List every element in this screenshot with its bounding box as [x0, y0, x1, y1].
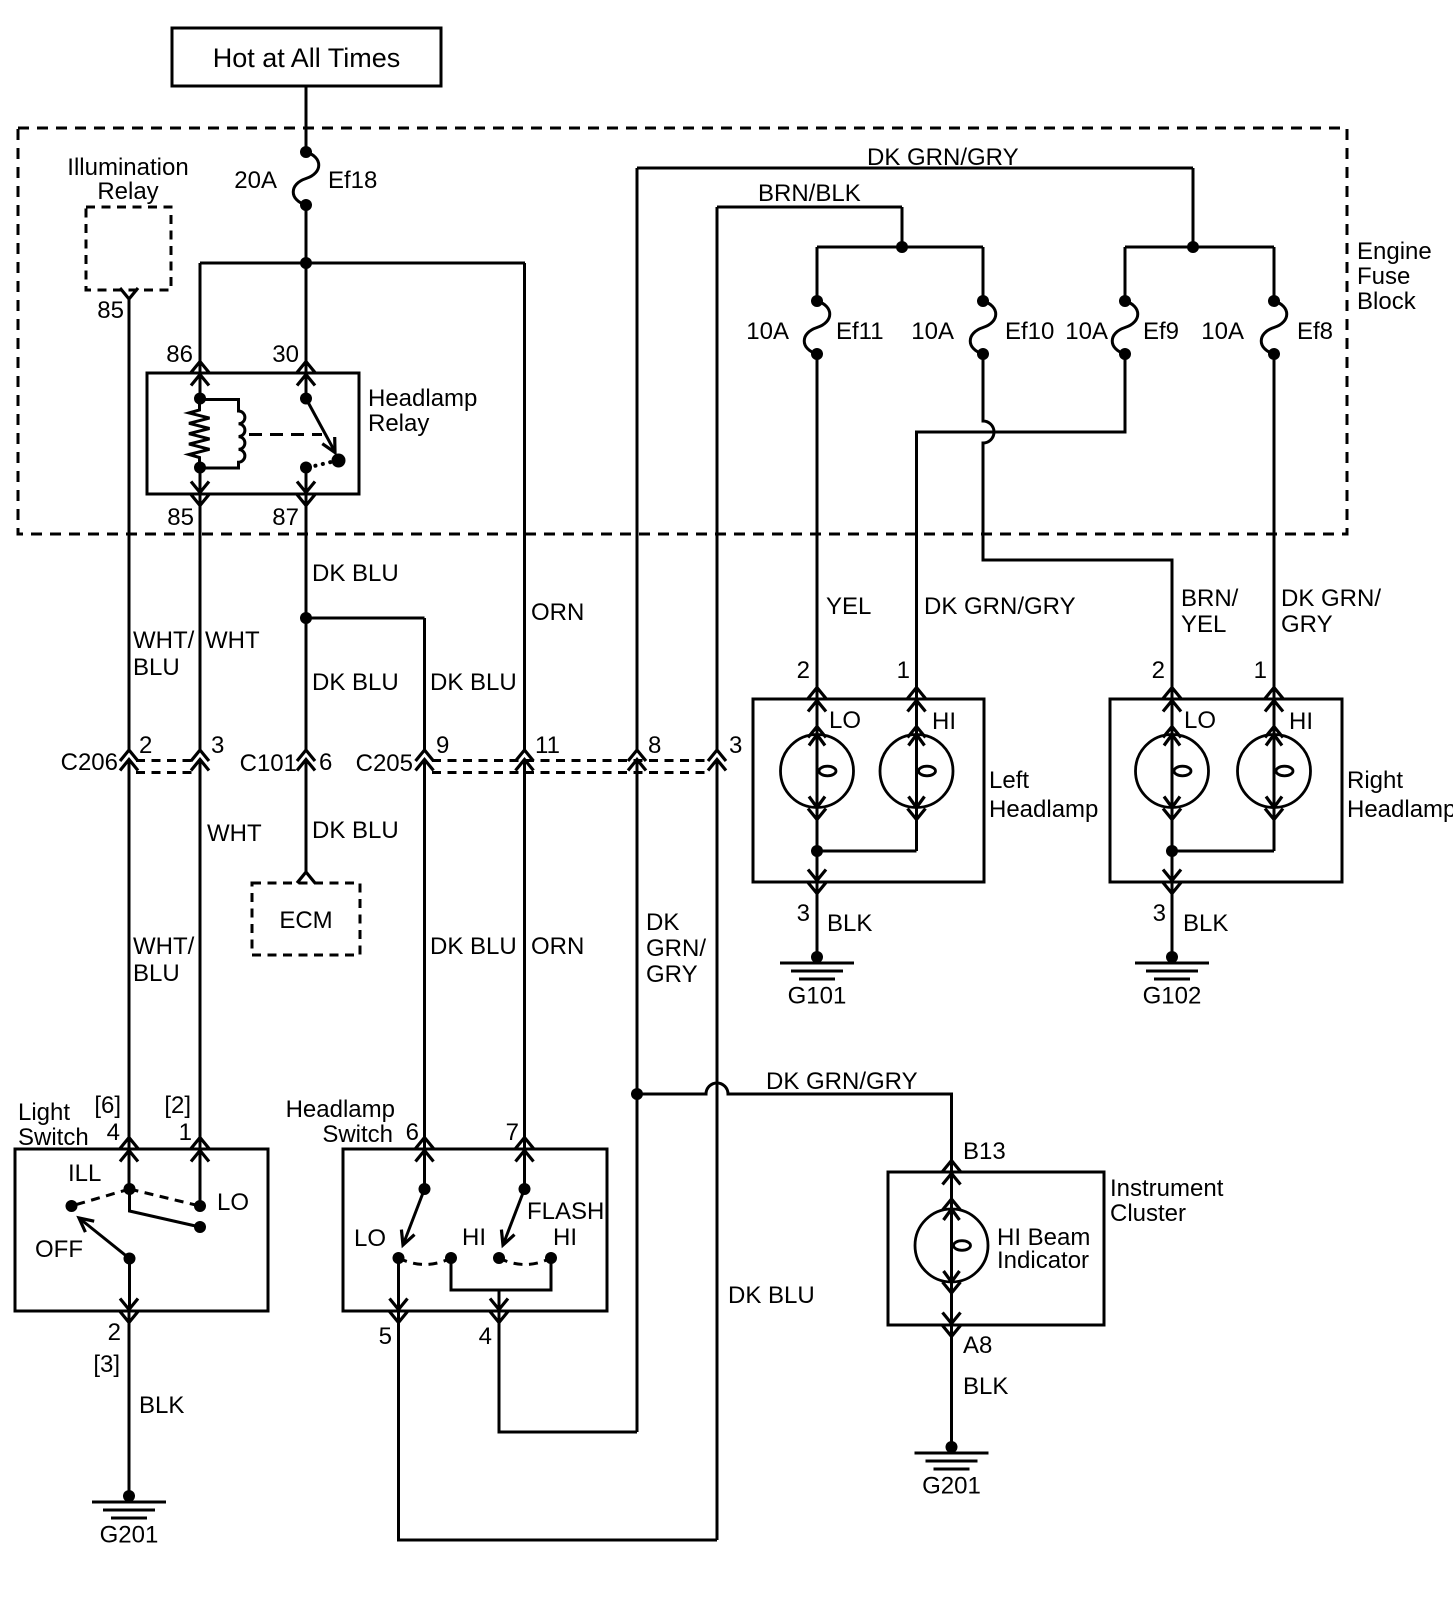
node A junction dot on battery feed: [300, 257, 312, 269]
label DK GRN/GRY top: [867, 144, 1019, 171]
svg-text:3: 3: [211, 732, 224, 759]
right headlamp LO bulb entry chevron: [1163, 727, 1181, 738]
wire WHT from relay pin 85 to light switch pin 1: [199, 468, 202, 1207]
right headlamp HI bulb exit chevron: [1265, 809, 1283, 820]
connector C206 pin 3 chevrons: [191, 750, 209, 771]
svg-text:WHT: WHT: [207, 820, 262, 847]
right headlamp pin 1 chevrons: [1265, 688, 1283, 712]
fuse Ef9 10A: [1112, 295, 1138, 360]
label HI Beam Indicator: [997, 1224, 1090, 1274]
right headlamp pin 3 label: [1153, 900, 1166, 927]
label LO left headlamp: [829, 707, 861, 734]
node junction dot DK BLU branch: [300, 612, 312, 624]
right headlamp pin 2 chevrons: [1163, 688, 1181, 712]
headlamp switch LO contact dot: [393, 1252, 405, 1264]
fuse Ef18 20A: [293, 146, 319, 211]
Headlamp Switch label: [286, 1096, 395, 1148]
headlamp switch dashed link FLASH to HI: [499, 1258, 551, 1265]
svg-text:ORN: ORN: [531, 933, 584, 960]
svg-text:BLU: BLU: [133, 654, 180, 681]
fuse Ef18 name label: [328, 167, 377, 194]
wire DK BLU vertical from BRN/BLK bus to bottom: [716, 207, 719, 1540]
svg-text:11: 11: [535, 732, 560, 759]
light switch pin 1 chevrons: [191, 1138, 209, 1162]
label DK BLU upper: [312, 560, 399, 587]
relay pin 30 chevrons: [297, 362, 315, 386]
wire left headlamp HI to ground node: [817, 808, 917, 852]
svg-text:BLK: BLK: [827, 910, 872, 937]
light switch OFF contact dot: [66, 1200, 78, 1212]
svg-text:4: 4: [107, 1119, 120, 1146]
headlamp switch pin 6 chevrons: [416, 1138, 434, 1162]
left headlamp HI bulb exit chevron: [908, 809, 926, 820]
svg-text:20A: 20A: [234, 167, 277, 194]
connector C205 pin 3 chevrons: [708, 750, 726, 771]
label BLK light switch: [139, 1392, 184, 1419]
svg-text:Ef8: Ef8: [1297, 318, 1333, 345]
svg-text:86: 86: [166, 341, 193, 368]
svg-text:[6]: [6]: [94, 1092, 121, 1119]
svg-text:85: 85: [97, 297, 124, 324]
headlamp switch pin 4 chevrons: [490, 1299, 508, 1323]
wire horizontal branch at node A: [200, 262, 525, 265]
headlamp switch HI contact dot right: [545, 1252, 557, 1264]
Headlamp Switch box: [343, 1149, 607, 1311]
relay coil top node dot: [194, 393, 206, 405]
svg-text:Indicator: Indicator: [997, 1247, 1089, 1274]
Illumination Relay label: [67, 154, 188, 205]
fuse bus right: [1125, 247, 1274, 296]
svg-text:BLK: BLK: [139, 1392, 184, 1419]
connector C101 pin 6 label: [319, 749, 332, 776]
Left Headlamp label: [989, 767, 1098, 823]
left headlamp pin 3 chevrons: [808, 870, 826, 894]
headlamp switch pin 4 label: [479, 1323, 492, 1350]
label WHT/BLU lower: [133, 933, 195, 987]
svg-text:HI: HI: [1289, 708, 1313, 735]
svg-text:1: 1: [1254, 657, 1267, 684]
relay pin 85 chevrons: [191, 482, 209, 506]
connector C101 label: [240, 750, 297, 777]
Illumination Relay dashed box: [86, 207, 171, 290]
instrument cluster pin A8 chevrons: [943, 1313, 961, 1337]
svg-text:LO: LO: [217, 1189, 249, 1216]
svg-text:WHT/: WHT/: [133, 627, 195, 654]
headlamp switch pin 6 label: [406, 1119, 419, 1146]
connector C205 pin 8 chevrons: [628, 750, 646, 771]
wire DK GRN/GRY from fuse Ef8 to right headlamp HI: [1273, 354, 1276, 735]
fuse Ef10 10A: [970, 295, 996, 360]
Headlamp Relay label: [368, 385, 477, 437]
light switch pin 2 chevrons: [120, 1299, 138, 1323]
relay pin 87 label: [272, 504, 299, 531]
wire light switch pin 2 internal: [128, 1259, 131, 1312]
label DK BLU to ECM: [312, 817, 399, 844]
label WHT/BLU upper: [133, 627, 195, 681]
relay switch contact dot: [332, 454, 346, 468]
connector C205 pin 11 chevrons: [516, 750, 534, 771]
wire battery feed down from Hot at All Times: [305, 86, 308, 147]
Illumination Relay pin 85 label: [97, 297, 124, 324]
svg-text:WHT/: WHT/: [133, 933, 195, 960]
svg-text:LO: LO: [829, 707, 861, 734]
Engine Fuse Block label: [1357, 238, 1432, 315]
label DK BLU bottom: [728, 1282, 815, 1309]
connector C205 dashed mating lines: [432, 761, 710, 773]
connector C205 pin 11 label: [535, 732, 560, 759]
svg-text:Light: Light: [18, 1099, 70, 1126]
svg-text:DK BLU: DK BLU: [430, 669, 517, 696]
headlamp switch dashed link LO to HI: [399, 1258, 452, 1265]
svg-text:Engine: Engine: [1357, 238, 1432, 265]
left headlamp pin 2 label: [797, 657, 810, 684]
bulb HI Beam Indicator: [915, 1209, 988, 1282]
light switch wiper arm with arrow: [79, 1218, 130, 1259]
svg-text:C101: C101: [240, 750, 297, 777]
fuse Ef10 labels: [911, 318, 1054, 345]
svg-text:Relay: Relay: [368, 410, 429, 437]
connector C205 label: [356, 750, 413, 777]
ECM label: [279, 907, 332, 934]
svg-text:ORN: ORN: [531, 599, 584, 626]
relay coil bottom node dot: [194, 462, 206, 474]
svg-text:3: 3: [729, 732, 742, 759]
label WHT lower: [207, 820, 262, 847]
Right Headlamp label: [1347, 767, 1453, 823]
label LO right headlamp: [1184, 707, 1216, 734]
instrument cluster bulb exit chevron: [943, 1282, 961, 1293]
light switch dashed link to LO contact: [130, 1189, 201, 1206]
headlamp switch pin 7 chevrons: [516, 1138, 534, 1162]
connector C206 dashed mating lines: [136, 761, 193, 773]
svg-text:Headlamp: Headlamp: [1347, 796, 1453, 823]
svg-text:10A: 10A: [746, 318, 789, 345]
wire DK GRN/GRY top horizontal: [637, 168, 1193, 247]
light switch pin 2 labels: [93, 1319, 121, 1378]
svg-text:85: 85: [167, 504, 194, 531]
svg-text:Relay: Relay: [97, 178, 158, 205]
svg-text:HI: HI: [932, 708, 956, 735]
relay pin 86 label: [166, 341, 193, 368]
left headlamp pin 1 label: [897, 657, 910, 684]
svg-text:8: 8: [648, 732, 661, 759]
left headlamp LO bulb exit chevron: [808, 809, 826, 820]
svg-text:C206: C206: [61, 749, 118, 776]
power source box: Hot at All Times: [172, 28, 441, 86]
label DK BLU lower: [430, 933, 517, 960]
svg-text:BLK: BLK: [1183, 910, 1228, 937]
svg-text:6: 6: [406, 1119, 419, 1146]
svg-text:3: 3: [1153, 900, 1166, 927]
svg-text:Right: Right: [1347, 767, 1403, 794]
right headlamp pin 3 chevrons: [1163, 870, 1181, 894]
svg-text:G201: G201: [922, 1473, 981, 1500]
Right Headlamp box: [1110, 699, 1342, 882]
instrument cluster bulb entry chevron: [943, 1199, 961, 1210]
label ORN lower: [531, 933, 584, 960]
relay switch common dot pin 30: [300, 393, 312, 405]
connector C205 pin 9 chevrons: [416, 750, 434, 771]
fuse bus left: [817, 247, 983, 296]
light switch LO contact dot: [194, 1200, 206, 1212]
svg-text:YEL: YEL: [826, 593, 871, 620]
Headlamp Relay box: [147, 373, 359, 494]
wire headlamp switch pin 4 internal: [498, 1290, 501, 1311]
wire DK GRN/GRY vertical to C205 pin 8: [636, 168, 639, 1432]
svg-text:Fuse: Fuse: [1357, 263, 1410, 290]
svg-text:BRN/: BRN/: [1181, 585, 1239, 612]
label A8: [963, 1332, 992, 1359]
label DK GRN/GRY wire 8: [646, 909, 706, 988]
relay coil resistor: [189, 399, 210, 468]
svg-text:2: 2: [108, 1319, 121, 1346]
left headlamp common node dot: [811, 845, 823, 857]
svg-text:DK BLU: DK BLU: [312, 560, 399, 587]
label LO headlamp switch: [354, 1225, 386, 1252]
wire from fuse Ef18 to node A and relay pin 30: [305, 205, 308, 399]
svg-text:DK GRN/GRY: DK GRN/GRY: [867, 144, 1019, 171]
svg-text:DK BLU: DK BLU: [430, 933, 517, 960]
label LO light switch: [217, 1189, 249, 1216]
light switch armature to second contact: [130, 1189, 201, 1227]
headlamp switch pin 6 node dot: [419, 1183, 431, 1195]
svg-text:7: 7: [506, 1119, 519, 1146]
fuse Ef18 value label 20A: [234, 167, 277, 194]
relay pin 87 chevrons: [297, 482, 315, 506]
wire branch down to relay pin 86: [199, 263, 202, 399]
wire from fuse Ef10 with hop crossover: [983, 354, 1172, 735]
svg-text:DK BLU: DK BLU: [312, 669, 399, 696]
fuse Ef8 labels: [1201, 318, 1333, 345]
left headlamp pin 3 label: [797, 900, 810, 927]
svg-text:C205: C205: [356, 750, 413, 777]
label YEL: [826, 593, 871, 620]
fuse Ef8 10A: [1261, 295, 1287, 360]
svg-text:A8: A8: [963, 1332, 992, 1359]
connector C101 pin 6 chevrons: [297, 750, 315, 771]
svg-text:B13: B13: [963, 1138, 1006, 1165]
svg-text:WHT: WHT: [205, 627, 260, 654]
svg-text:G101: G101: [788, 983, 847, 1010]
ground G101: [780, 951, 854, 1010]
Instrument Cluster box: [888, 1172, 1104, 1325]
left headlamp pin 1 chevrons: [908, 688, 926, 712]
right headlamp HI bulb entry chevron: [1265, 727, 1283, 738]
label DK GRN/GRY right headlamp: [1281, 585, 1381, 638]
connector C205 pin 3 label: [729, 732, 742, 759]
label WHT upper: [205, 627, 260, 654]
svg-text:G102: G102: [1143, 983, 1202, 1010]
headlamp switch FLASH armature with arrow: [501, 1189, 524, 1245]
svg-text:5: 5: [379, 1323, 392, 1350]
svg-text:30: 30: [272, 341, 299, 368]
light switch second contact dot: [194, 1221, 206, 1233]
svg-text:DK GRN/GRY: DK GRN/GRY: [766, 1068, 918, 1095]
svg-text:Block: Block: [1357, 288, 1417, 315]
label BRN/BLK top: [758, 180, 861, 207]
ground G201 right: [915, 1441, 989, 1500]
label BLK right headlamp: [1183, 910, 1228, 937]
relay pin 85 label: [167, 504, 194, 531]
svg-text:Ef9: Ef9: [1143, 318, 1179, 345]
svg-text:87: 87: [272, 504, 299, 531]
wire DK GRN/GRY from fuse Ef9 to left headlamp HI: [917, 354, 1126, 735]
label DK BLU mid left: [312, 669, 399, 696]
relay coil inductor: [200, 400, 245, 469]
svg-text:ECM: ECM: [279, 907, 332, 934]
svg-text:Switch: Switch: [322, 1121, 393, 1148]
left headlamp HI bulb entry chevron: [908, 727, 926, 738]
right headlamp pin 2 label: [1152, 657, 1165, 684]
svg-text:G201: G201: [100, 1522, 159, 1549]
headlamp switch pin 7 label: [506, 1119, 519, 1146]
svg-text:Illumination: Illumination: [67, 154, 188, 181]
label HI headlamp switch left: [462, 1224, 486, 1251]
svg-text:Ef10: Ef10: [1005, 318, 1054, 345]
label OFF: [35, 1236, 83, 1263]
headlamp switch pin 5 chevrons: [390, 1299, 408, 1323]
wire WHT/BLU from illumination relay pin 85 to light switch: [128, 299, 131, 1189]
label BRN/YEL: [1181, 585, 1239, 638]
Engine Fuse Block dashed boundary: [18, 128, 1347, 534]
instrument cluster pin B13 chevrons: [943, 1161, 961, 1185]
ECM dashed box: [252, 883, 360, 955]
svg-text:HI: HI: [553, 1224, 577, 1251]
svg-text:2: 2: [139, 732, 152, 759]
svg-text:OFF: OFF: [35, 1236, 83, 1263]
svg-text:Instrument: Instrument: [1110, 1175, 1224, 1202]
connector C206 label: [61, 749, 118, 776]
wire DK BLU return to headlamp switch pin 5: [399, 1311, 718, 1540]
relay switch armature: [306, 399, 335, 453]
svg-text:Ef11: Ef11: [836, 318, 884, 345]
Light Switch label: [18, 1099, 89, 1151]
label B13: [963, 1138, 1006, 1165]
connector C206 pin 2 chevrons: [120, 750, 138, 771]
svg-text:Headlamp: Headlamp: [368, 385, 477, 412]
headlamp switch HI contact dot left: [445, 1252, 457, 1264]
svg-text:Hot at All Times: Hot at All Times: [213, 43, 401, 73]
headlamp switch pin 5 label: [379, 1323, 392, 1350]
wire right headlamp LO to ground node: [1171, 808, 1174, 958]
bulb left headlamp HI: [880, 735, 953, 808]
headlamp switch HI bus: [451, 1258, 551, 1290]
svg-text:LO: LO: [354, 1225, 386, 1252]
svg-text:Headlamp: Headlamp: [989, 796, 1098, 823]
wire headlamp switch pin 5 internal: [397, 1258, 400, 1311]
label BLK instrument cluster: [963, 1373, 1008, 1400]
svg-text:1: 1: [897, 657, 910, 684]
svg-text:DK BLU: DK BLU: [312, 817, 399, 844]
wire DK GRN/GRY to instrument cluster with hop: [637, 1083, 952, 1172]
node dot DK GRN/GRY branch to instrument cluster: [631, 1088, 643, 1100]
Light Switch box: [15, 1149, 268, 1311]
svg-text:2: 2: [1152, 657, 1165, 684]
label DK BLU mid right: [430, 669, 517, 696]
relay switch dotted link to pin 87: [308, 462, 333, 468]
label DK GRN/GRY left headlamp: [924, 593, 1076, 620]
svg-text:9: 9: [436, 732, 449, 759]
relay dashed actuation link: [249, 433, 322, 436]
right headlamp LO bulb exit chevron: [1163, 809, 1181, 820]
svg-text:DK GRN/: DK GRN/: [1281, 585, 1381, 612]
wire DK BLU from relay pin 87 to ECM: [305, 468, 308, 873]
ECM pin chevron: [297, 872, 315, 883]
connector C206 pin 3 label: [211, 732, 224, 759]
headlamp switch pin 7 node dot: [519, 1183, 531, 1195]
svg-text:LO: LO: [1184, 707, 1216, 734]
ground G102: [1135, 951, 1209, 1010]
node dot on right fuse bus: [1187, 241, 1199, 253]
svg-text:10A: 10A: [911, 318, 954, 345]
label HI headlamp switch right: [553, 1224, 577, 1251]
wire right headlamp HI to ground node: [1172, 808, 1274, 852]
ground G201 left: [92, 1490, 166, 1549]
wire instrument cluster internal: [950, 1094, 953, 1447]
wire YEL from fuse Ef11 to left headlamp LO: [816, 354, 819, 735]
Illumination Relay pin 85 chevron: [120, 288, 138, 299]
relay pin 86 chevrons: [191, 362, 209, 386]
headlamp switch LO armature with arrow: [401, 1189, 424, 1245]
svg-text:10A: 10A: [1065, 318, 1108, 345]
left headlamp LO bulb entry chevron: [808, 727, 826, 738]
bulb left headlamp LO: [781, 735, 854, 808]
label DK GRN/GRY instrument cluster: [766, 1068, 918, 1095]
svg-text:HI: HI: [462, 1224, 486, 1251]
svg-text:BLU: BLU: [133, 960, 180, 987]
svg-text:4: 4: [479, 1323, 492, 1350]
light switch pin 4 node dot: [124, 1183, 136, 1195]
svg-text:Left: Left: [989, 767, 1029, 794]
wire left headlamp LO to ground node: [816, 808, 819, 958]
left headlamp pin 2 chevrons: [808, 688, 826, 712]
svg-text:10A: 10A: [1201, 318, 1244, 345]
bulb right headlamp LO: [1136, 735, 1209, 808]
connector C205 pin 8 label: [648, 732, 661, 759]
svg-text:3: 3: [797, 900, 810, 927]
svg-text:Cluster: Cluster: [1110, 1200, 1186, 1227]
svg-text:FLASH: FLASH: [527, 1198, 604, 1225]
fuse Ef11 10A: [804, 295, 830, 360]
svg-text:ILL: ILL: [68, 1160, 101, 1187]
wire DK BLU branch to headlamp switch pin 6: [423, 618, 426, 1189]
svg-text:6: 6: [319, 749, 332, 776]
svg-text:Ef18: Ef18: [328, 167, 377, 194]
relay pin 30 label: [272, 341, 299, 368]
Left Headlamp box: [753, 699, 984, 882]
wire BLK light switch to ground: [128, 1311, 131, 1496]
svg-text:BLK: BLK: [963, 1373, 1008, 1400]
headlamp switch FLASH contact dot: [493, 1252, 505, 1264]
light switch pin 4 labels: [94, 1092, 121, 1146]
label HI left headlamp: [932, 708, 956, 735]
wire ORN from node A to headlamp switch pin 7: [523, 263, 526, 1189]
light switch pin 4 chevrons: [120, 1138, 138, 1162]
svg-text:[3]: [3]: [93, 1351, 120, 1378]
Instrument Cluster label: [1110, 1175, 1224, 1227]
svg-text:DK: DK: [646, 909, 679, 936]
light switch wiper pivot dot: [124, 1253, 136, 1265]
svg-text:[2]: [2]: [164, 1092, 191, 1119]
svg-text:DK GRN/GRY: DK GRN/GRY: [924, 593, 1076, 620]
fuse Ef11 labels: [746, 318, 883, 345]
label ORN upper: [531, 599, 584, 626]
svg-text:GRN/: GRN/: [646, 935, 706, 962]
svg-text:Switch: Switch: [18, 1124, 89, 1151]
label BLK left headlamp: [827, 910, 872, 937]
svg-text:1: 1: [179, 1119, 192, 1146]
label FLASH: [527, 1198, 604, 1225]
